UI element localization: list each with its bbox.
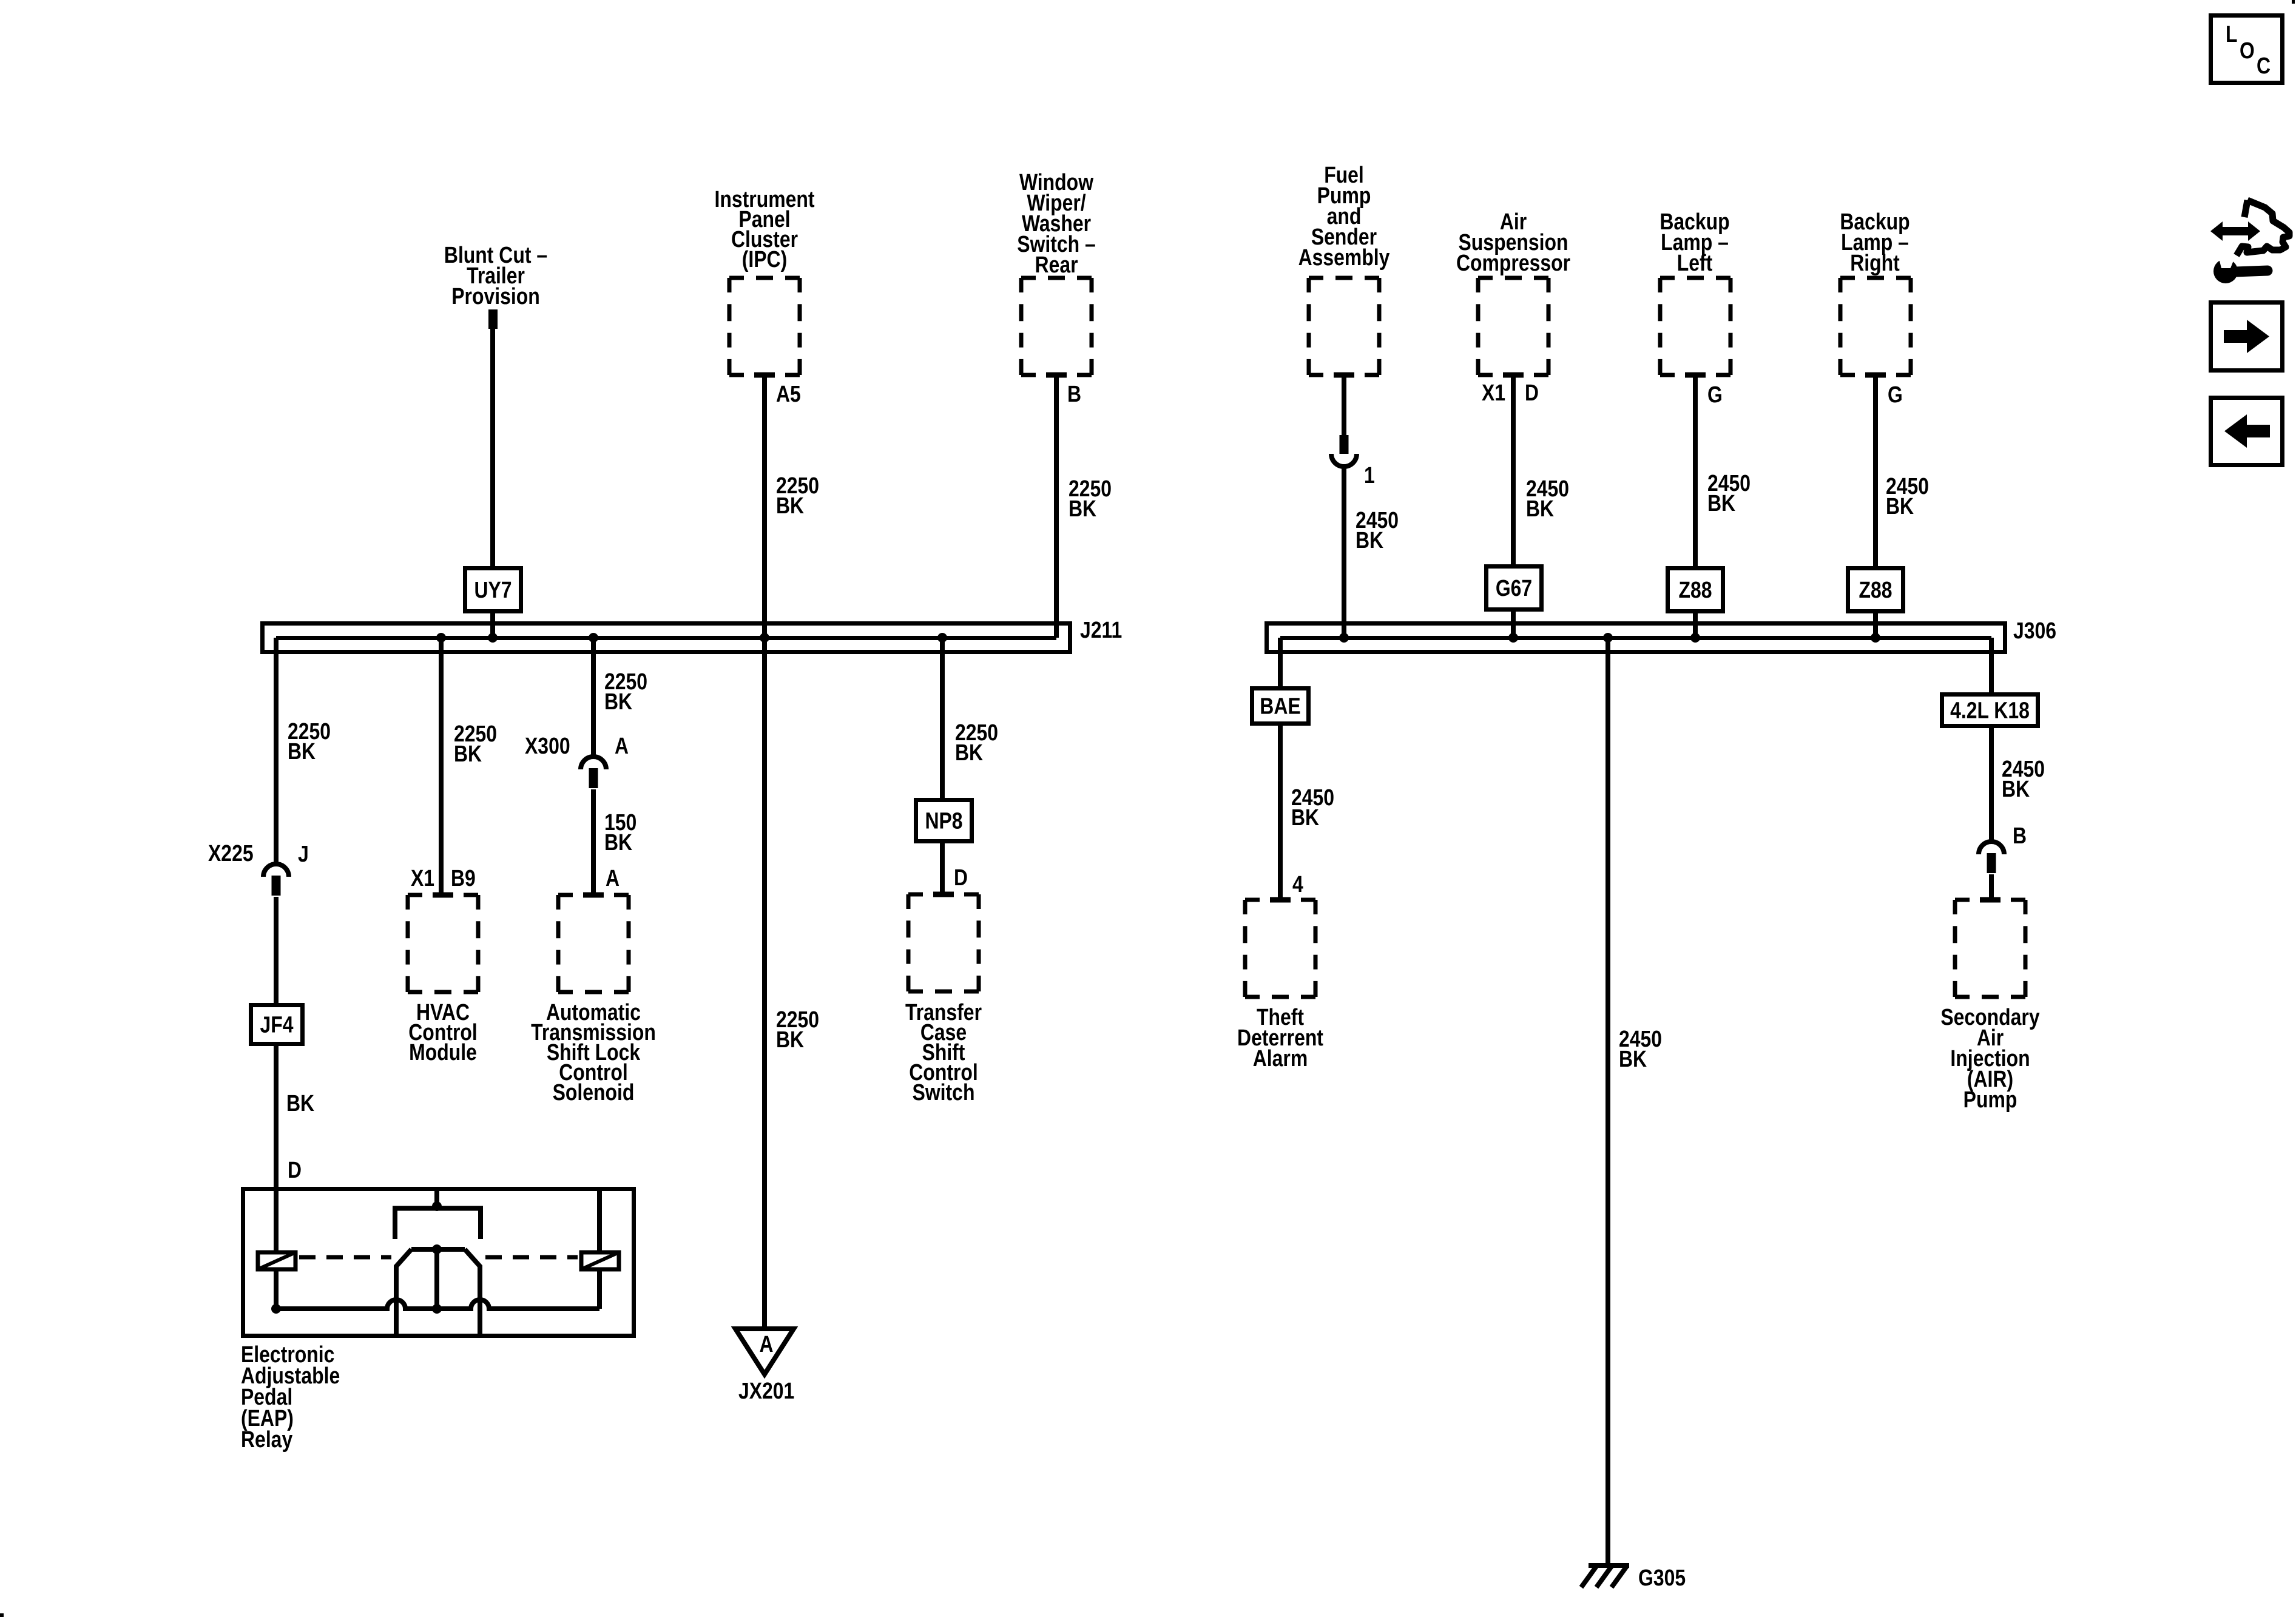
wire label 2250 BK (transfer drop)	[955, 720, 998, 766]
svg-text:BK: BK	[955, 740, 984, 766]
svg-text:Module: Module	[409, 1040, 477, 1065]
svg-text:4.2L K18: 4.2L K18	[1950, 698, 2030, 724]
svg-text:A5: A5	[776, 382, 801, 407]
wire: J211 to X300	[591, 638, 596, 758]
connector box: HVAC Control Module	[408, 893, 478, 897]
splice pack J306 bus bar	[1267, 624, 2005, 652]
component label: Electronic Adjustable Pedal (EAP) Relay	[241, 1342, 340, 1453]
svg-text:BK: BK	[288, 739, 316, 765]
component label: Fuel Pump and Sender Assembly	[1298, 163, 1390, 271]
legend box LOC	[2211, 16, 2283, 83]
svg-text:X1: X1	[1482, 380, 1505, 406]
inline connector X300	[581, 757, 606, 769]
wire label 2250 BK (solenoid drop)	[604, 669, 647, 715]
svg-text:BAE: BAE	[1260, 694, 1300, 720]
junction dot (relay bottom left)	[271, 1304, 281, 1314]
svg-text:X1: X1	[411, 866, 434, 891]
inline connector (AIR pump B)	[1979, 842, 2004, 854]
svg-text:A: A	[760, 1332, 774, 1357]
option box Z88 (right)	[1848, 569, 1903, 612]
wire: J211 to HVAC module	[439, 638, 444, 895]
wire: J306 to G305	[1606, 638, 1610, 1565]
wire: JF4 to EAP relay	[274, 1044, 279, 1191]
svg-text:Compressor: Compressor	[1456, 251, 1570, 276]
option box BAE	[1252, 689, 1309, 724]
wire: X300 to solenoid	[591, 789, 596, 895]
svg-text:BK: BK	[776, 1027, 805, 1053]
wire: J306 to BAE	[1278, 638, 1283, 688]
junction dot (UY7 drop)	[488, 633, 498, 643]
connector box: Backup Lamp - Left	[1660, 276, 1730, 280]
page artifact dot top right	[2292, 0, 2295, 4]
svg-text:BK: BK	[1619, 1047, 1647, 1072]
EAP relay outline	[243, 1189, 634, 1336]
wire label 2450 BK (fuel)	[1356, 508, 1399, 553]
component label: Backup Lamp - Right	[1840, 209, 1909, 276]
wire label 2450 BK (BAE drop)	[1291, 785, 1334, 831]
connector box: Air Suspension Compressor	[1478, 276, 1548, 280]
wire: NP8 to transfer switch	[940, 842, 945, 894]
splice JX201 triangle	[735, 1329, 794, 1374]
svg-text:Rear: Rear	[1035, 252, 1078, 278]
component label: Transfer Case Shift Control Switch	[905, 1000, 982, 1106]
wire: J211 to NP8	[940, 638, 945, 800]
svg-text:1: 1	[1364, 463, 1375, 488]
junction dot (lamp left wire)	[1690, 633, 1700, 643]
svg-text:JX201: JX201	[738, 1379, 794, 1404]
junction dot (switch top)	[432, 1244, 442, 1254]
icon: vehicle with wrench	[2210, 221, 2260, 241]
relay contact bracket	[395, 1209, 481, 1240]
junction dot (HVAC drop)	[436, 633, 446, 643]
connector box: Instrument Panel Cluster	[729, 276, 800, 280]
relay coil right	[581, 1252, 619, 1269]
svg-text:J211: J211	[1080, 618, 1122, 643]
option box Z88 (left)	[1668, 569, 1723, 612]
component label: Window Wiper/Washer Switch - Rear	[1017, 170, 1096, 278]
wire: lamp left to Z88	[1693, 375, 1698, 568]
svg-text:UY7: UY7	[474, 578, 512, 603]
connector box: Backup Lamp - Right	[1840, 276, 1911, 280]
connector box: Fuel Pump and Sender Assembly	[1309, 276, 1379, 280]
component label: Instrument Panel Cluster (IPC)	[715, 187, 815, 272]
wire label 2250 BK (IPC below bus)	[776, 1007, 819, 1053]
relay transfer switch body	[396, 1249, 480, 1336]
icon: arrow right box	[2211, 303, 2283, 371]
component label: Theft Deterrent Alarm	[1237, 1005, 1323, 1072]
svg-text:Switch: Switch	[913, 1080, 975, 1106]
svg-text:BK: BK	[286, 1091, 315, 1116]
svg-text:NP8: NP8	[925, 809, 962, 834]
component label: Secondary Air Injection (AIR) Pump	[1940, 1005, 2039, 1113]
svg-text:D: D	[1525, 380, 1539, 406]
junction dot (bracket top)	[432, 1201, 442, 1211]
wire label 2450 BK (lamp right)	[1886, 474, 1929, 519]
wire: UY7 to bus J211	[490, 612, 495, 638]
svg-text:BK: BK	[1069, 496, 1097, 522]
option box G67	[1487, 567, 1542, 610]
svg-text:L: L	[2226, 22, 2238, 47]
wire label 2250 BK (HVAC drop)	[454, 721, 497, 767]
svg-text:B9: B9	[451, 866, 476, 891]
svg-text:BK: BK	[604, 830, 633, 856]
junction dot (switch bottom)	[432, 1304, 442, 1314]
svg-text:B: B	[1067, 382, 1081, 407]
inline connector X225	[263, 864, 289, 877]
connector box: Window Wiper/Washer Switch - Rear	[1021, 276, 1092, 280]
splice pack J211 bus bar	[263, 624, 1070, 652]
relay bottom rail with hops	[276, 1300, 599, 1309]
svg-text:(IPC): (IPC)	[742, 247, 788, 272]
wire: BAE to theft alarm	[1278, 724, 1283, 900]
option box NP8	[916, 800, 972, 842]
svg-text:X225: X225	[208, 841, 254, 866]
junction dot (lamp right wire)	[1871, 633, 1880, 643]
inline connector (fuel pump pin 1)	[1331, 454, 1357, 467]
option box JF4	[251, 1005, 303, 1044]
svg-text:Right: Right	[1850, 251, 1900, 276]
svg-text:BK: BK	[604, 689, 633, 715]
component label: Air Suspension Compressor	[1456, 209, 1570, 276]
junction dot (transfer case drop)	[937, 633, 947, 643]
svg-text:G305: G305	[1638, 1565, 1686, 1591]
wire: connector B to AIR pump	[1989, 874, 1994, 900]
relay linkage dashed line left	[299, 1255, 391, 1260]
option box UY7	[465, 569, 521, 612]
svg-text:BK: BK	[454, 741, 482, 767]
wire: relay top to contact bracket	[434, 1191, 439, 1209]
svg-text:J306: J306	[2013, 618, 2056, 644]
wire: fuel connector to bus J306	[1342, 465, 1346, 638]
svg-text:BK: BK	[1526, 496, 1555, 522]
wire label 2250 BK (X225 drop)	[288, 719, 331, 765]
svg-text:C: C	[2257, 53, 2271, 79]
wire: relay pin D to coil	[274, 1191, 279, 1251]
wire: wiper switch B to bus J211	[1054, 375, 1059, 638]
svg-text:D: D	[954, 865, 968, 891]
wire: G67 to bus J306	[1511, 610, 1516, 638]
svg-text:Z88: Z88	[1679, 578, 1712, 603]
wire label 2450 BK (K18 drop)	[2002, 757, 2045, 802]
svg-text:Assembly: Assembly	[1298, 245, 1390, 271]
blunt cut terminal	[488, 309, 498, 329]
wire: compressor to G67	[1511, 375, 1516, 566]
connector box: Automatic Transmission Shift Lock Control Solenoid	[558, 893, 629, 897]
wire: J306 to 4.2L K18	[1989, 638, 1994, 694]
svg-text:Relay: Relay	[241, 1427, 292, 1453]
svg-text:Left: Left	[1677, 251, 1713, 276]
svg-text:J: J	[298, 842, 309, 867]
junction dot (fuel pump wire)	[1339, 633, 1349, 643]
junction dot (compressor wire)	[1508, 633, 1518, 643]
wire: right coil to bottom rail	[597, 1269, 602, 1309]
svg-text:O: O	[2240, 38, 2255, 64]
wire: relay top right to coil	[597, 1191, 602, 1252]
svg-text:A: A	[615, 734, 629, 759]
svg-text:Pump: Pump	[1963, 1087, 2017, 1113]
wire: X225 to JF4	[274, 897, 279, 1005]
svg-text:BK: BK	[1356, 528, 1384, 553]
svg-text:G: G	[1707, 382, 1723, 408]
svg-text:A: A	[606, 866, 620, 891]
wire label 2250 BK (IPC above bus)	[776, 473, 819, 519]
wire: fuel pump to connector	[1342, 375, 1346, 436]
component label: HVAC Control Module	[408, 1000, 478, 1065]
relay coil left	[258, 1252, 295, 1269]
connector box: Secondary Air Injection (AIR) Pump	[1955, 898, 2025, 902]
connector box: Theft Deterrent Alarm	[1245, 898, 1315, 902]
wire: J211 to X225	[274, 638, 279, 865]
wire: blunt cut to UY7	[490, 328, 495, 568]
svg-text:X300: X300	[525, 734, 570, 759]
wire label 2250 BK (wiper)	[1069, 476, 1112, 522]
svg-text:4: 4	[1292, 872, 1303, 897]
svg-text:Z88: Z88	[1859, 578, 1893, 603]
svg-text:G: G	[1888, 382, 1903, 408]
connector box: Transfer Case Shift Control Switch	[908, 893, 979, 897]
svg-text:JF4: JF4	[260, 1013, 294, 1038]
icon: arrow left box	[2211, 398, 2283, 465]
wire label: Blunt Cut - Trailer Provision	[444, 243, 547, 309]
junction dot (solenoid drop)	[589, 633, 598, 643]
junction dot (G305 drop)	[1603, 633, 1613, 643]
wire label 2450 BK (G305 drop)	[1619, 1027, 1662, 1072]
ground symbol G305	[1581, 1565, 1629, 1587]
svg-text:BK: BK	[1886, 494, 1914, 519]
junction dot (IPC wire)	[760, 633, 769, 643]
wire label 2450 BK (compressor)	[1526, 476, 1569, 522]
svg-text:B: B	[2013, 823, 2027, 849]
svg-text:BK: BK	[2002, 777, 2030, 802]
wire: K18 to connector B	[1989, 726, 1994, 843]
relay linkage dashed line right	[485, 1255, 578, 1260]
svg-text:Provision: Provision	[451, 284, 540, 309]
wire label 2450 BK (lamp left)	[1707, 471, 1751, 516]
wire label 150 BK	[604, 810, 636, 856]
svg-text:BK: BK	[776, 493, 805, 519]
wire: Z88 right to bus J306	[1873, 612, 1878, 638]
svg-text:Alarm: Alarm	[1253, 1046, 1308, 1072]
wire: left coil to bottom rail	[274, 1269, 279, 1309]
component label: Backup Lamp - Left	[1660, 209, 1729, 276]
svg-text:BK: BK	[1291, 805, 1320, 831]
wire: IPC A5 through J211 to JX201	[762, 375, 767, 1329]
svg-text:D: D	[288, 1158, 302, 1183]
wire: Z88 left to bus J306	[1693, 612, 1698, 638]
svg-text:BK: BK	[1707, 491, 1736, 516]
page artifact dot bottom left	[0, 1613, 4, 1617]
component label: Automatic Transmission Shift Lock Control Solenoid	[531, 1000, 656, 1106]
svg-text:Solenoid: Solenoid	[553, 1080, 635, 1106]
wire: lamp right to Z88	[1873, 375, 1878, 568]
svg-text:G67: G67	[1496, 576, 1532, 601]
option box 4.2L K18	[1942, 695, 2038, 726]
